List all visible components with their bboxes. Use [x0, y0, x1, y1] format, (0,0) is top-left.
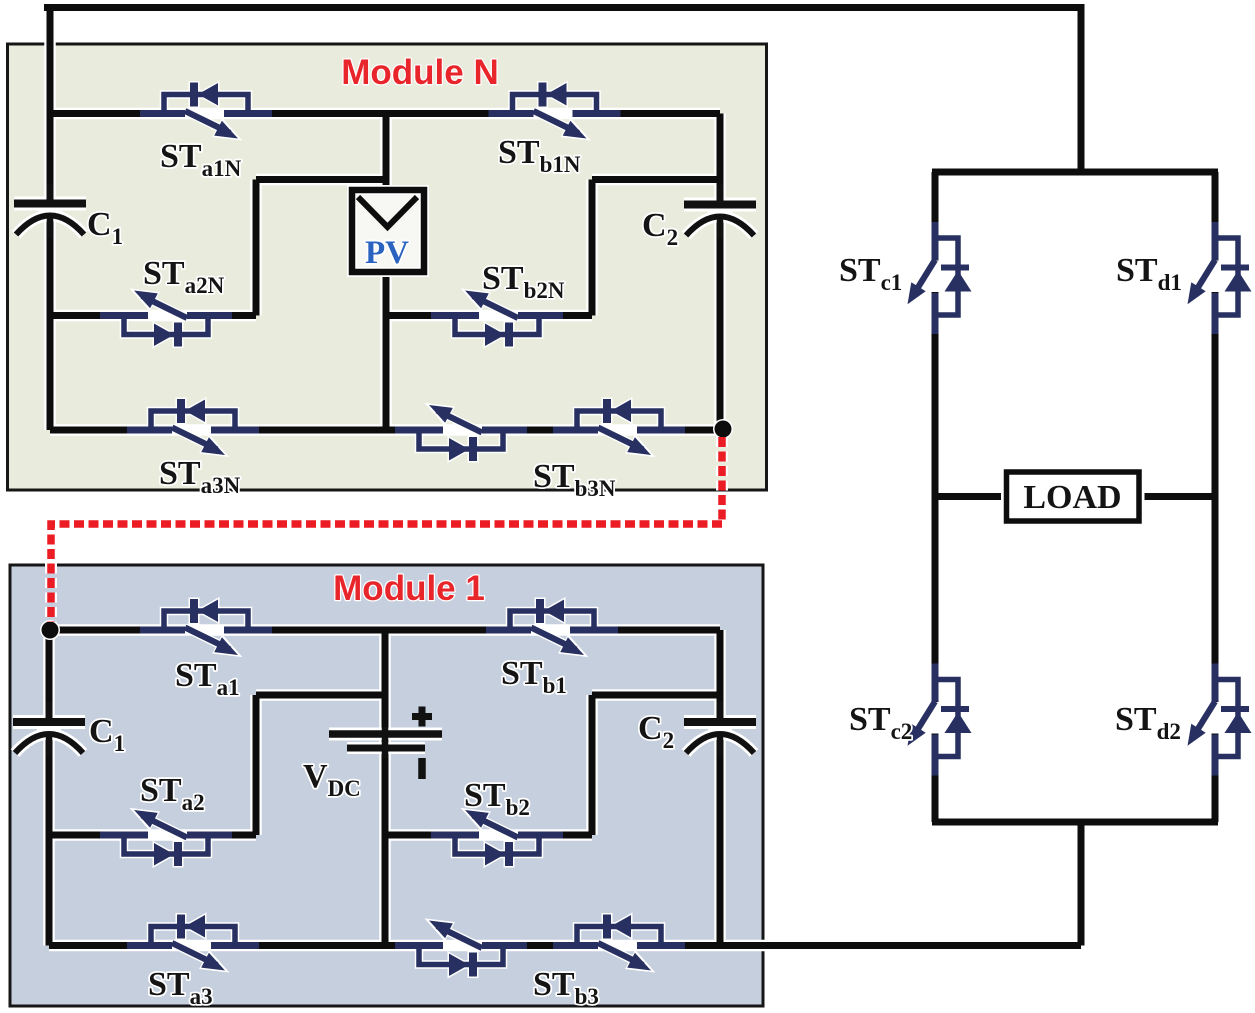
switch ST_a2 — [100, 810, 232, 866]
wires: module 1 halo — [49, 630, 1081, 946]
wire: module N bottom rail — [50, 427, 720, 434]
wire: H-bridge load rail — [935, 493, 1215, 500]
wire: module 1 left rail — [46, 630, 53, 946]
wire: module N top rail — [50, 110, 720, 117]
capacitor C1 (module 1) — [13, 702, 85, 756]
switch ST_b3 left half — [395, 921, 527, 977]
switch ST_b2N — [431, 291, 563, 347]
wire: module 1 b2 rail — [385, 832, 592, 839]
wire: module 1 top rail — [49, 627, 720, 634]
svg-text:Module 1: Module 1 — [333, 569, 485, 608]
wire: module 1 a2 rail — [49, 832, 256, 839]
wires: module N halo — [50, 114, 720, 431]
switch ST_b1N — [489, 83, 621, 139]
wire: module N a2 rail — [50, 312, 256, 319]
switch ST_b2 — [431, 810, 563, 866]
capacitor C2 (module 1) — [684, 702, 756, 756]
svg-text:PV: PV — [365, 235, 409, 271]
PV source U1 — [352, 190, 424, 272]
switch ST_c1 — [908, 222, 972, 334]
red dashed interconnect wire — [51, 437, 722, 622]
wire: module N node B stubs — [592, 180, 720, 316]
wire: module 1 right rail — [717, 630, 724, 946]
switch ST_a1N — [140, 83, 272, 139]
switch ST_b3N right half — [553, 399, 685, 455]
Module 1 background box — [10, 565, 763, 1006]
battery VDC (module 1) — [329, 707, 442, 780]
svg-text:Module N: Module N — [341, 53, 498, 92]
wire: module N b2 rail — [386, 312, 592, 319]
wire: left drop / module left rail — [47, 5, 54, 431]
wire: module N PV column — [383, 114, 390, 431]
wire: module N right rail — [717, 114, 724, 431]
wire: H-bridge bottom rail — [932, 819, 1218, 826]
wire: module 1 node B stubs — [592, 695, 720, 835]
switch ST_d2 — [1188, 664, 1252, 776]
wire: module 1 node A stubs — [256, 695, 385, 835]
switch ST_a1 — [140, 599, 272, 655]
switch ST_a3 — [127, 915, 259, 971]
wire: top feed bus — [44, 4, 1085, 11]
LOAD box — [1007, 472, 1140, 521]
switch ST_b3 right half — [553, 915, 685, 971]
wires: H-bridge halo — [932, 172, 1218, 822]
wire: module 1 bottom rail out to bridge — [49, 822, 1081, 946]
switch ST_b1 — [486, 599, 618, 655]
node dot: module 1 input — [40, 620, 60, 640]
switch ST_c2 — [908, 664, 972, 776]
switch ST_a2N — [100, 291, 232, 347]
capacitor C2 (module N) — [684, 185, 756, 239]
capacitor C1 (module N) — [14, 184, 86, 238]
switch ST_a3N — [127, 399, 259, 455]
node dot: module N output — [713, 419, 733, 439]
wire: right feed drop — [1078, 5, 1085, 173]
switch ST_b3N left half — [395, 405, 527, 461]
wire: top feed bus halo — [44, 5, 1085, 431]
svg-text:LOAD: LOAD — [1023, 479, 1121, 516]
switch ST_d1 — [1188, 222, 1252, 334]
wire: module 1 battery column — [382, 630, 389, 946]
wire: module N node A stubs — [256, 180, 386, 316]
wire: H-bridge right leg — [1212, 172, 1219, 822]
Module N background box — [8, 44, 767, 490]
wire: H-bridge left leg — [932, 172, 939, 822]
wire: H-bridge top rail — [932, 169, 1218, 176]
